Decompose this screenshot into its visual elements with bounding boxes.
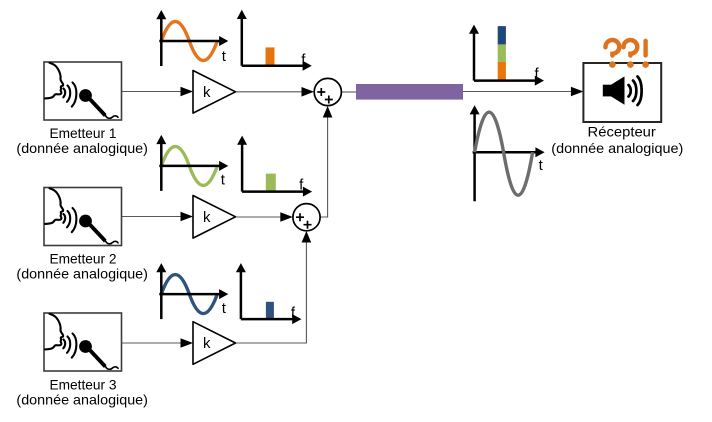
- svg-text:Emetteur 1: Emetteur 1: [50, 125, 117, 141]
- svg-text:(donnée analogique): (donnée analogique): [16, 140, 148, 156]
- svg-text:Emetteur 3: Emetteur 3: [50, 377, 117, 393]
- svg-text:Récepteur: Récepteur: [588, 124, 657, 140]
- svg-text:(donnée analogique): (donnée analogique): [16, 392, 148, 408]
- svg-text:t: t: [221, 172, 226, 189]
- svg-text:t: t: [222, 300, 227, 317]
- svg-text:Emetteur 2: Emetteur 2: [50, 250, 117, 266]
- svg-text:t: t: [222, 48, 227, 65]
- svg-text:(donnée analogique): (donnée analogique): [16, 266, 148, 282]
- svg-text:t: t: [539, 157, 544, 174]
- svg-text:(donnée analogique): (donnée analogique): [551, 140, 683, 156]
